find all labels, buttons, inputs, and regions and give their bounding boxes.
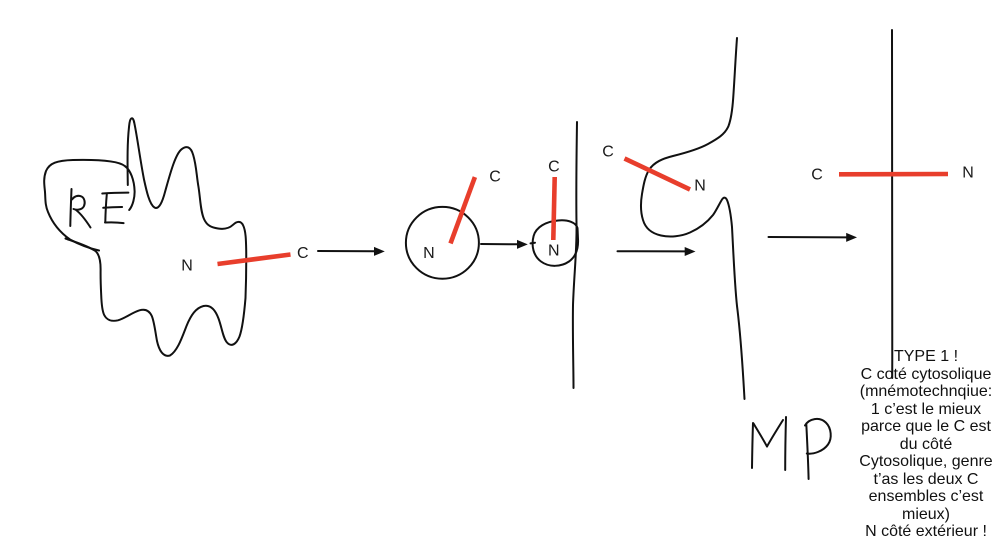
svg-text:N: N <box>962 165 974 182</box>
svg-text:N: N <box>548 242 560 259</box>
svg-text:C: C <box>297 245 309 262</box>
svg-text:C: C <box>602 143 614 160</box>
svg-text:C: C <box>548 158 560 175</box>
svg-text:N: N <box>181 258 193 275</box>
svg-text:N: N <box>423 245 435 262</box>
svg-text:N: N <box>694 178 706 195</box>
svg-text:C: C <box>811 167 823 184</box>
svg-text:C: C <box>489 169 501 186</box>
